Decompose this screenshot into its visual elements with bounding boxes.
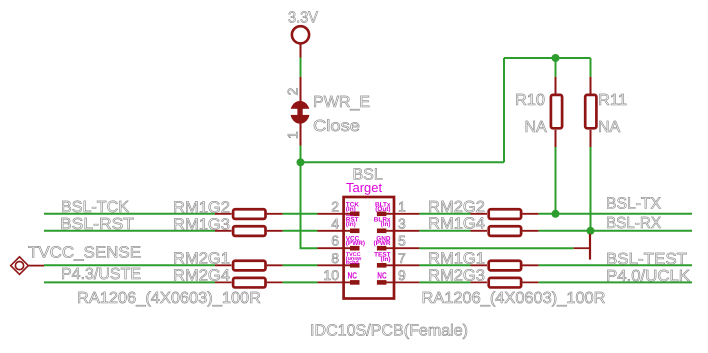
- svg-text:7: 7: [398, 250, 406, 266]
- resistor RM1G1 body: [489, 261, 521, 271]
- ground bar: [589, 234, 591, 260]
- svg-text:TVCC_SENSE: TVCC_SENSE: [28, 244, 141, 261]
- resistor RM1G3 pin left: [215, 230, 232, 232]
- svg-text:NA: NA: [598, 119, 621, 136]
- svg-text:8: 8: [331, 250, 339, 266]
- jumper PWR_E body: [285, 101, 315, 124]
- wire RM2G4 to pin 10: [283, 281, 318, 283]
- wire pin 3 to RM1G4: [419, 230, 470, 232]
- junction dot BSL-RX / R11: [587, 227, 595, 235]
- svg-text:Target: Target: [346, 180, 383, 195]
- wire top rail: [504, 57, 591, 59]
- wire junction to right riser: [301, 161, 505, 163]
- resistor RM2G1 pin right: [267, 264, 283, 266]
- svg-text:R10: R10: [515, 92, 545, 109]
- resistor RM2G2 pin right: [522, 213, 538, 215]
- resistor R11 body: [585, 95, 596, 128]
- svg-text:NC: NC: [377, 270, 387, 280]
- svg-text:6: 6: [331, 233, 339, 249]
- wire BSL-RST: [44, 230, 215, 232]
- resistor RM2G3 pin right: [522, 281, 538, 283]
- pin 10 stub: [318, 281, 352, 283]
- svg-text:BSL-TX: BSL-TX: [606, 196, 661, 213]
- jumper PWR_E pin 1: [300, 123, 302, 146]
- resistor RM2G4 body: [233, 278, 265, 288]
- pin contact boxes right: [377, 212, 387, 285]
- svg-text:(In): (In): [381, 221, 391, 228]
- svg-text:3: 3: [398, 215, 406, 231]
- wire RM2G1 to pin 8: [283, 264, 318, 266]
- resistor RM1G2 body: [233, 209, 265, 219]
- ground pin: [574, 247, 590, 249]
- resistor RM2G1 pin left: [215, 264, 232, 266]
- resistor RM2G2 body: [489, 209, 521, 219]
- svg-text:10: 10: [323, 267, 339, 283]
- pin 8 stub: [318, 264, 352, 266]
- svg-text:(Out): (Out): [375, 206, 390, 213]
- pin 2 stub: [318, 213, 352, 215]
- resistor RM2G4 pin right: [267, 281, 283, 283]
- resistor RM1G3 body: [233, 226, 265, 236]
- svg-text:1: 1: [285, 131, 301, 139]
- wire BSL-TEST: [539, 264, 692, 266]
- pin 5 stub: [386, 247, 420, 249]
- svg-text:(PWR): (PWR): [346, 240, 365, 247]
- pin contact boxes left: [350, 212, 360, 285]
- resistor RM1G4 pin left: [471, 230, 488, 232]
- svg-text:RA1206_(4X0603)_100R: RA1206_(4X0603)_100R: [422, 290, 606, 307]
- svg-text:IDC10S/PCB(Female): IDC10S/PCB(Female): [310, 323, 468, 340]
- svg-text:4: 4: [331, 215, 339, 231]
- wire R10 to BSL-TX: [555, 147, 557, 214]
- pin 1 stub: [386, 213, 420, 215]
- resistor R10 pin bottom: [555, 130, 557, 147]
- wire PWR_E to junction: [300, 146, 302, 163]
- svg-text:itchd: itchd: [346, 260, 359, 266]
- wire RM1G2 to pin 2: [283, 213, 318, 215]
- wire junction down to pin 6 row: [301, 162, 318, 248]
- svg-text:PWR_E: PWR_E: [313, 94, 370, 111]
- jumper PWR_E pin 2: [300, 77, 302, 102]
- svg-text:1: 1: [398, 198, 406, 214]
- svg-text:P4.3/USTE: P4.3/USTE: [61, 266, 141, 283]
- wire P4.0/UCLK: [539, 281, 692, 283]
- svg-text:3.3V: 3.3V: [288, 10, 318, 27]
- resistor RM2G3 body: [489, 278, 521, 288]
- wire top rail to R11: [590, 58, 592, 77]
- junction dot top rail: [552, 54, 560, 62]
- wire pin 9 to RM2G3: [419, 281, 470, 283]
- resistor R11 pin top: [590, 77, 592, 94]
- svg-text:(In): (In): [346, 221, 356, 228]
- wire pin 7 to RM1G1: [419, 264, 470, 266]
- svg-text:5: 5: [398, 233, 406, 249]
- junction dot below PWR_E: [297, 158, 305, 166]
- wire P4.3/USTE: [44, 281, 215, 283]
- resistor RM1G1 pin left: [471, 264, 488, 266]
- supply symbol 3.3V circle: [292, 26, 309, 43]
- resistor RM2G3 pin left: [471, 281, 488, 283]
- pin 4 stub: [318, 230, 352, 232]
- resistor RM1G1 pin right: [522, 264, 538, 266]
- resistor R10 pin top: [555, 77, 557, 94]
- wire TVCC_SENSE: [44, 264, 215, 266]
- svg-text:RM1G4: RM1G4: [428, 215, 485, 232]
- svg-text:9: 9: [398, 267, 406, 283]
- resistor RM2G4 pin left: [215, 281, 232, 283]
- wire RM1G3 to pin 4: [283, 230, 318, 232]
- pin 7 stub: [386, 264, 420, 266]
- svg-text:2: 2: [285, 88, 301, 96]
- wire riser up: [503, 58, 505, 162]
- pin 9 stub: [386, 281, 420, 283]
- wire pin 1 to RM2G2: [419, 213, 470, 215]
- svg-text:NC: NC: [348, 270, 358, 280]
- resistor RM1G4 body: [489, 226, 521, 236]
- wire top rail to R10: [555, 58, 557, 77]
- connector J1 body: [344, 197, 394, 299]
- wire R11 to BSL-RX: [590, 147, 592, 231]
- testpoint diamond TVCC_SENSE: [11, 257, 29, 275]
- wire BSL-TCK: [44, 213, 215, 215]
- wire 3.3V to PWR_E: [300, 58, 302, 77]
- testpoint pin: [28, 265, 44, 267]
- svg-text:(In): (In): [381, 256, 391, 263]
- resistor RM1G4 pin right: [522, 230, 538, 232]
- svg-text:BSL-TEST: BSL-TEST: [606, 251, 687, 268]
- svg-text:(In): (In): [346, 206, 356, 213]
- svg-text:NA: NA: [525, 119, 548, 136]
- svg-text:BSL-RX: BSL-RX: [606, 215, 661, 232]
- supply pin: [300, 44, 302, 58]
- resistor RM2G2 pin left: [471, 213, 488, 215]
- svg-text:P4.0/UCLK: P4.0/UCLK: [606, 268, 690, 285]
- svg-text:R11: R11: [598, 92, 627, 109]
- resistor RM1G3 pin right: [267, 230, 283, 232]
- pin 3 stub: [386, 230, 420, 232]
- junction dot BSL-TX / R10: [552, 210, 560, 218]
- svg-text:RA1206_(4X0603)_100R: RA1206_(4X0603)_100R: [77, 290, 261, 307]
- wire pin 5 to GND: [419, 247, 573, 249]
- wire BSL-TX: [539, 213, 692, 215]
- resistor R10 body: [551, 95, 562, 128]
- wire BSL-RX: [539, 230, 692, 232]
- resistor RM2G1 body: [233, 261, 265, 271]
- resistor RM1G2 pin left: [215, 213, 232, 215]
- svg-text:(PWR: (PWR: [373, 240, 390, 247]
- svg-text:Close: Close: [313, 118, 360, 135]
- svg-text:2: 2: [331, 198, 339, 214]
- pin 6 stub: [318, 247, 352, 249]
- resistor R11 pin bottom: [590, 130, 592, 147]
- resistor RM1G2 pin right: [267, 213, 283, 215]
